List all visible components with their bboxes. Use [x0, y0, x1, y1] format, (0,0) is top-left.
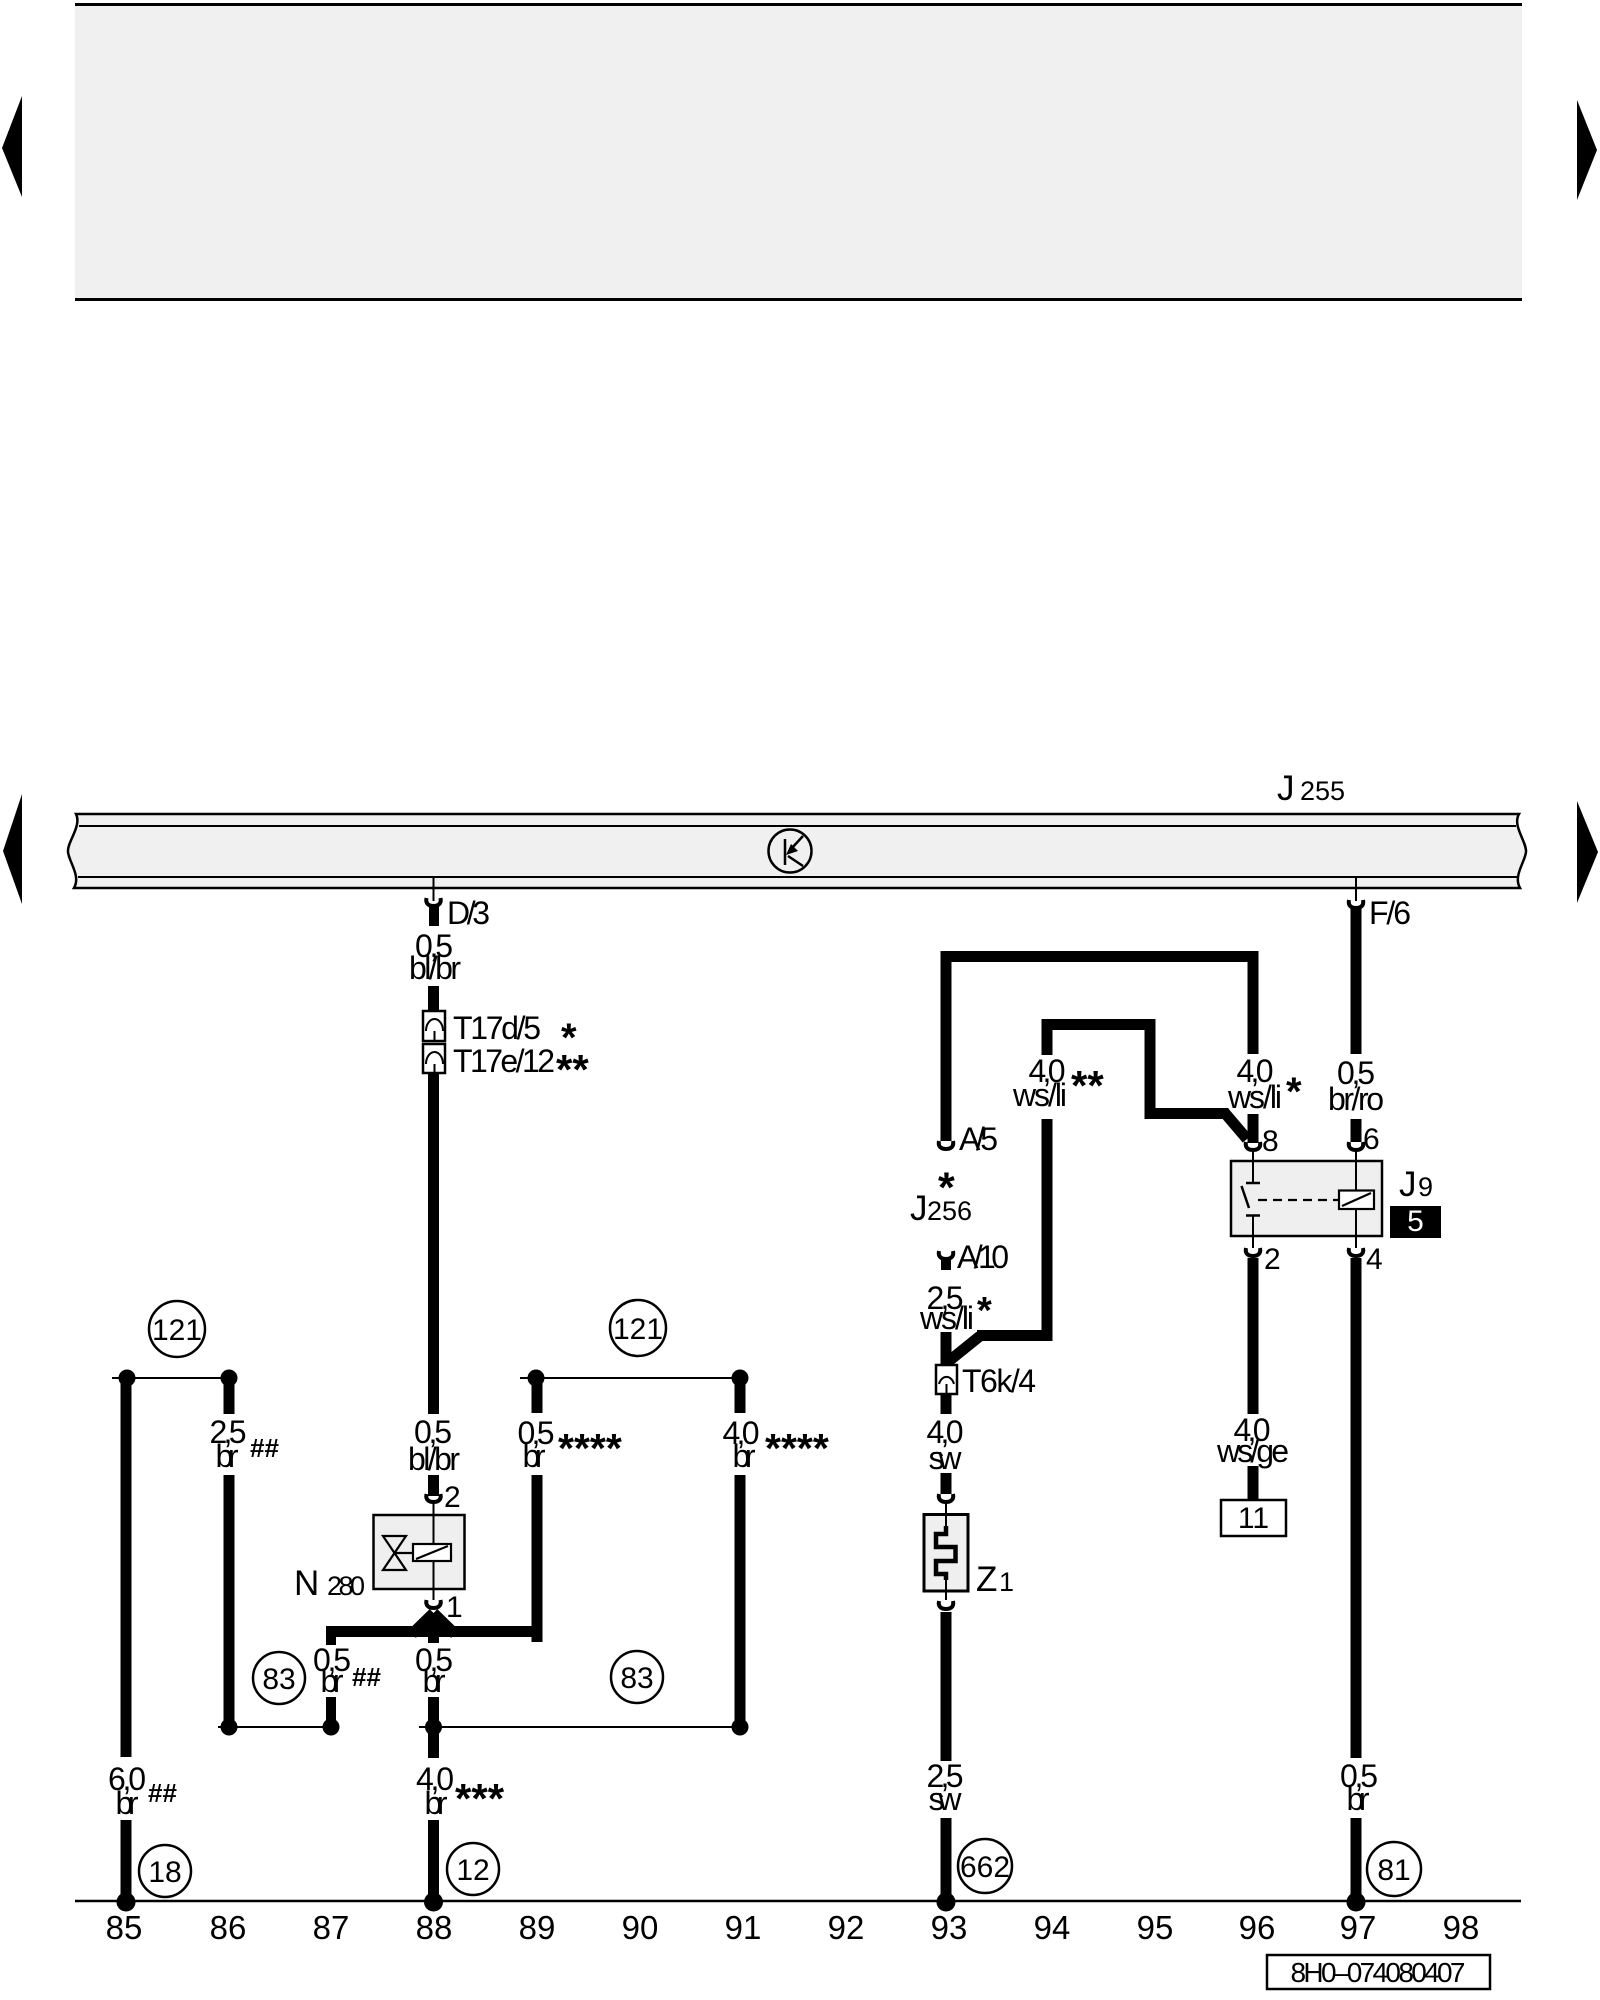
svg-text:83: 83 [262, 1663, 295, 1696]
svg-text:##: ## [352, 1662, 381, 1692]
svg-text:91: 91 [725, 1909, 762, 1946]
svg-text:93: 93 [931, 1909, 968, 1946]
svg-text:12: 12 [456, 1854, 489, 1887]
svg-text:sw: sw [929, 1440, 963, 1476]
svg-text:1: 1 [446, 1591, 463, 1624]
svg-text:br: br [423, 1663, 446, 1699]
svg-text:1: 1 [999, 1567, 1014, 1597]
svg-text:bl/br: bl/br [409, 950, 461, 986]
svg-text:121: 121 [613, 1313, 663, 1346]
svg-text:ws/li: ws/li [1012, 1077, 1067, 1113]
svg-text:4: 4 [1366, 1243, 1383, 1276]
svg-text:**: ** [1071, 1062, 1104, 1109]
svg-text:br: br [216, 1438, 239, 1474]
svg-text:****: **** [558, 1425, 622, 1471]
svg-text:##: ## [250, 1433, 279, 1463]
svg-text:96: 96 [1239, 1909, 1276, 1946]
svg-text:A/10: A/10 [957, 1239, 1009, 1275]
svg-text:5: 5 [1407, 1205, 1424, 1238]
svg-text:Z: Z [976, 1560, 997, 1599]
svg-text:8: 8 [1262, 1125, 1279, 1158]
svg-text:N: N [294, 1564, 319, 1603]
svg-text:##: ## [148, 1778, 177, 1808]
svg-text:T17e/12: T17e/12 [453, 1043, 555, 1079]
svg-text:89: 89 [519, 1909, 556, 1946]
svg-text:ws/ge: ws/ge [1216, 1433, 1289, 1469]
svg-text:87: 87 [313, 1909, 350, 1946]
svg-text:97: 97 [1340, 1909, 1377, 1946]
svg-text:D/3: D/3 [447, 895, 490, 931]
svg-text:br/ro: br/ro [1328, 1081, 1384, 1117]
svg-text:280: 280 [327, 1571, 365, 1601]
svg-text:8H0–074080407: 8H0–074080407 [1291, 1957, 1466, 1988]
svg-text:95: 95 [1137, 1909, 1174, 1946]
svg-text:**: ** [556, 1046, 589, 1093]
svg-text:*: * [977, 1290, 992, 1332]
svg-text:ws/li: ws/li [1227, 1079, 1282, 1115]
svg-text:2: 2 [1264, 1243, 1281, 1276]
svg-text:6: 6 [1363, 1123, 1380, 1156]
svg-text:86: 86 [210, 1909, 247, 1946]
svg-text:F/6: F/6 [1369, 895, 1411, 931]
svg-text:98: 98 [1443, 1909, 1480, 1946]
svg-text:br: br [523, 1438, 546, 1474]
svg-text:18: 18 [148, 1856, 181, 1889]
svg-text:11: 11 [1238, 1502, 1269, 1535]
svg-text:94: 94 [1034, 1909, 1071, 1946]
svg-text:br: br [733, 1438, 756, 1474]
svg-text:***: *** [455, 1775, 505, 1822]
svg-text:2: 2 [444, 1481, 461, 1514]
svg-text:J: J [1399, 1165, 1417, 1204]
svg-text:85: 85 [106, 1909, 143, 1946]
svg-text:T17d/5: T17d/5 [453, 1010, 541, 1046]
svg-text:sw: sw [929, 1781, 963, 1817]
svg-text:9: 9 [1418, 1172, 1433, 1202]
svg-text:81: 81 [1377, 1854, 1410, 1887]
svg-text:ws/li: ws/li [919, 1300, 974, 1336]
svg-text:T6k/4: T6k/4 [962, 1363, 1036, 1399]
svg-text:88: 88 [416, 1909, 453, 1946]
svg-text:br: br [425, 1785, 448, 1821]
svg-text:br: br [1347, 1781, 1370, 1817]
svg-text:90: 90 [622, 1909, 659, 1946]
svg-text:A/5: A/5 [959, 1121, 998, 1157]
svg-text:J: J [1277, 769, 1295, 808]
svg-text:83: 83 [620, 1662, 653, 1695]
svg-text:J: J [910, 1189, 928, 1228]
svg-text:255: 255 [1300, 776, 1345, 806]
svg-text:****: **** [765, 1425, 829, 1471]
svg-text:*: * [1286, 1070, 1302, 1114]
svg-text:br: br [116, 1785, 139, 1821]
svg-text:bl/br: bl/br [408, 1441, 460, 1477]
svg-text:*: * [938, 1164, 955, 1212]
svg-text:br: br [321, 1663, 344, 1699]
svg-text:121: 121 [152, 1314, 202, 1347]
svg-text:662: 662 [960, 1851, 1010, 1884]
svg-text:92: 92 [828, 1909, 865, 1946]
